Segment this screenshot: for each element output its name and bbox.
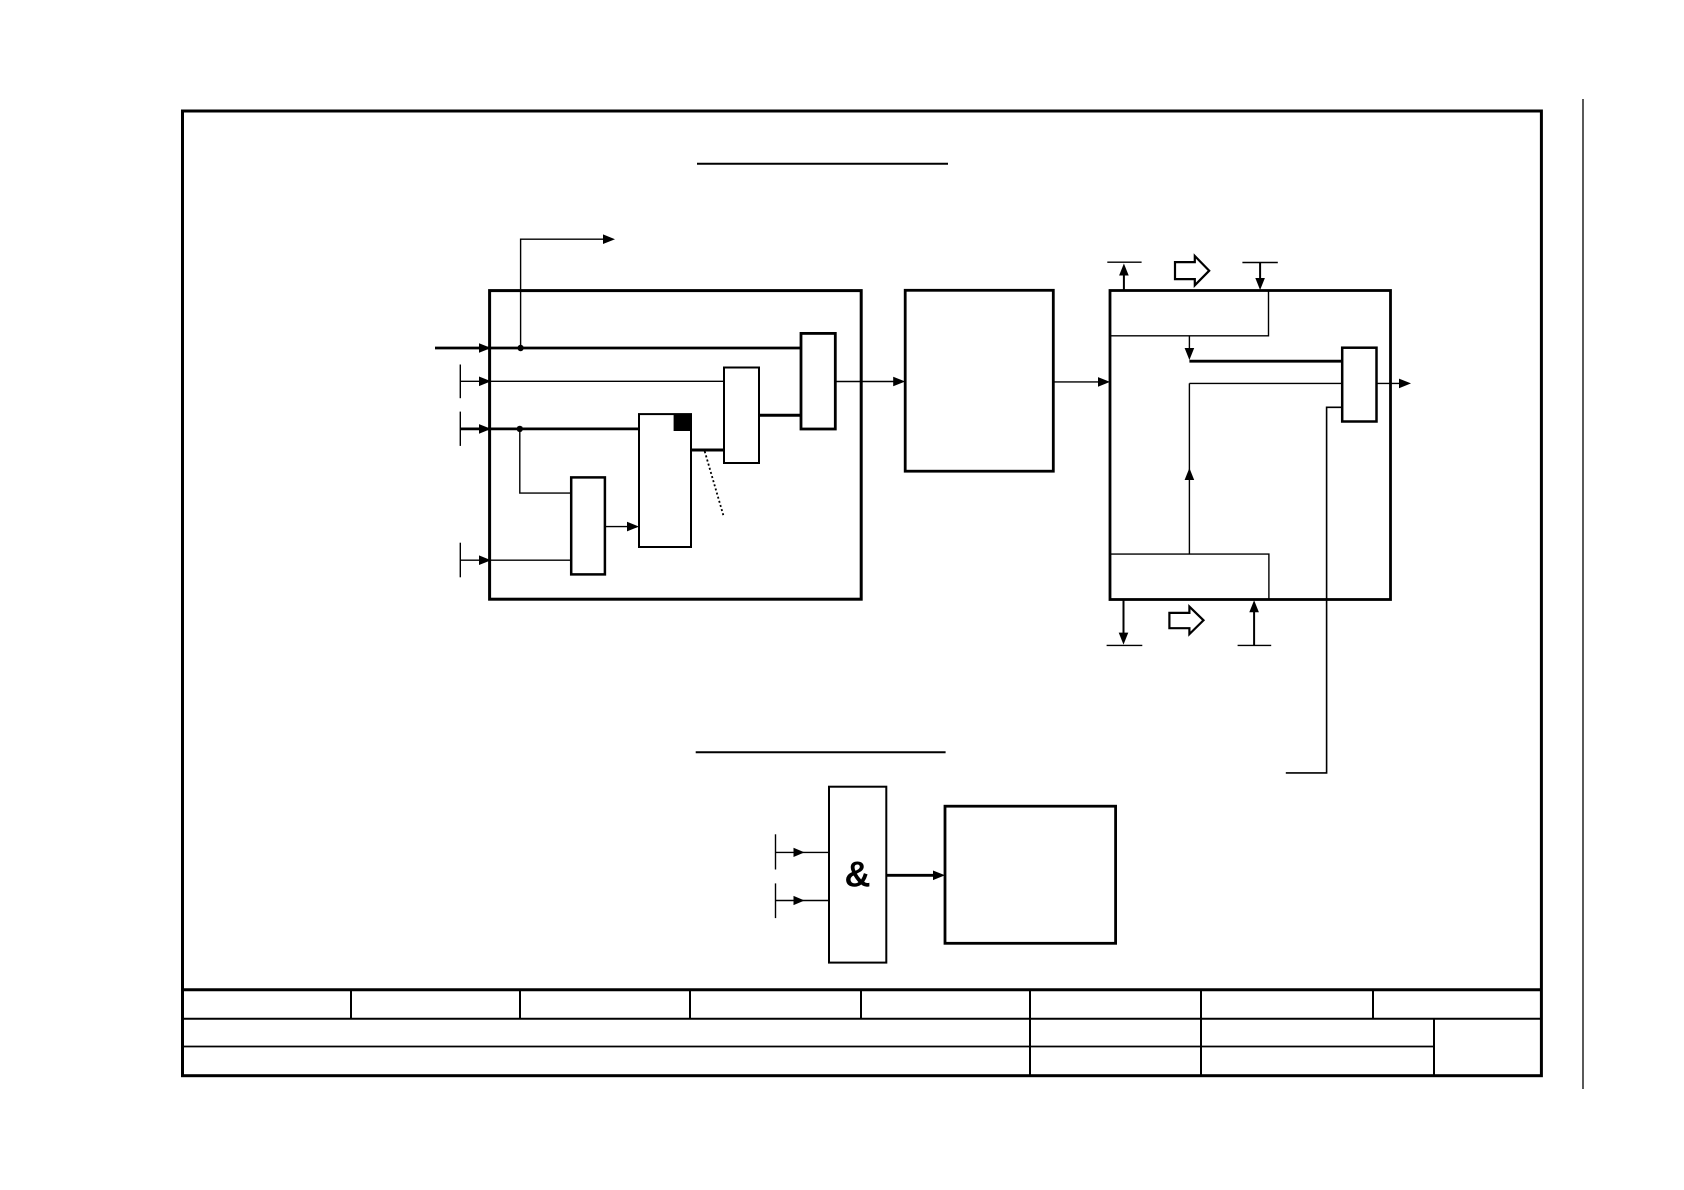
svg-text:&: &: [845, 854, 871, 895]
